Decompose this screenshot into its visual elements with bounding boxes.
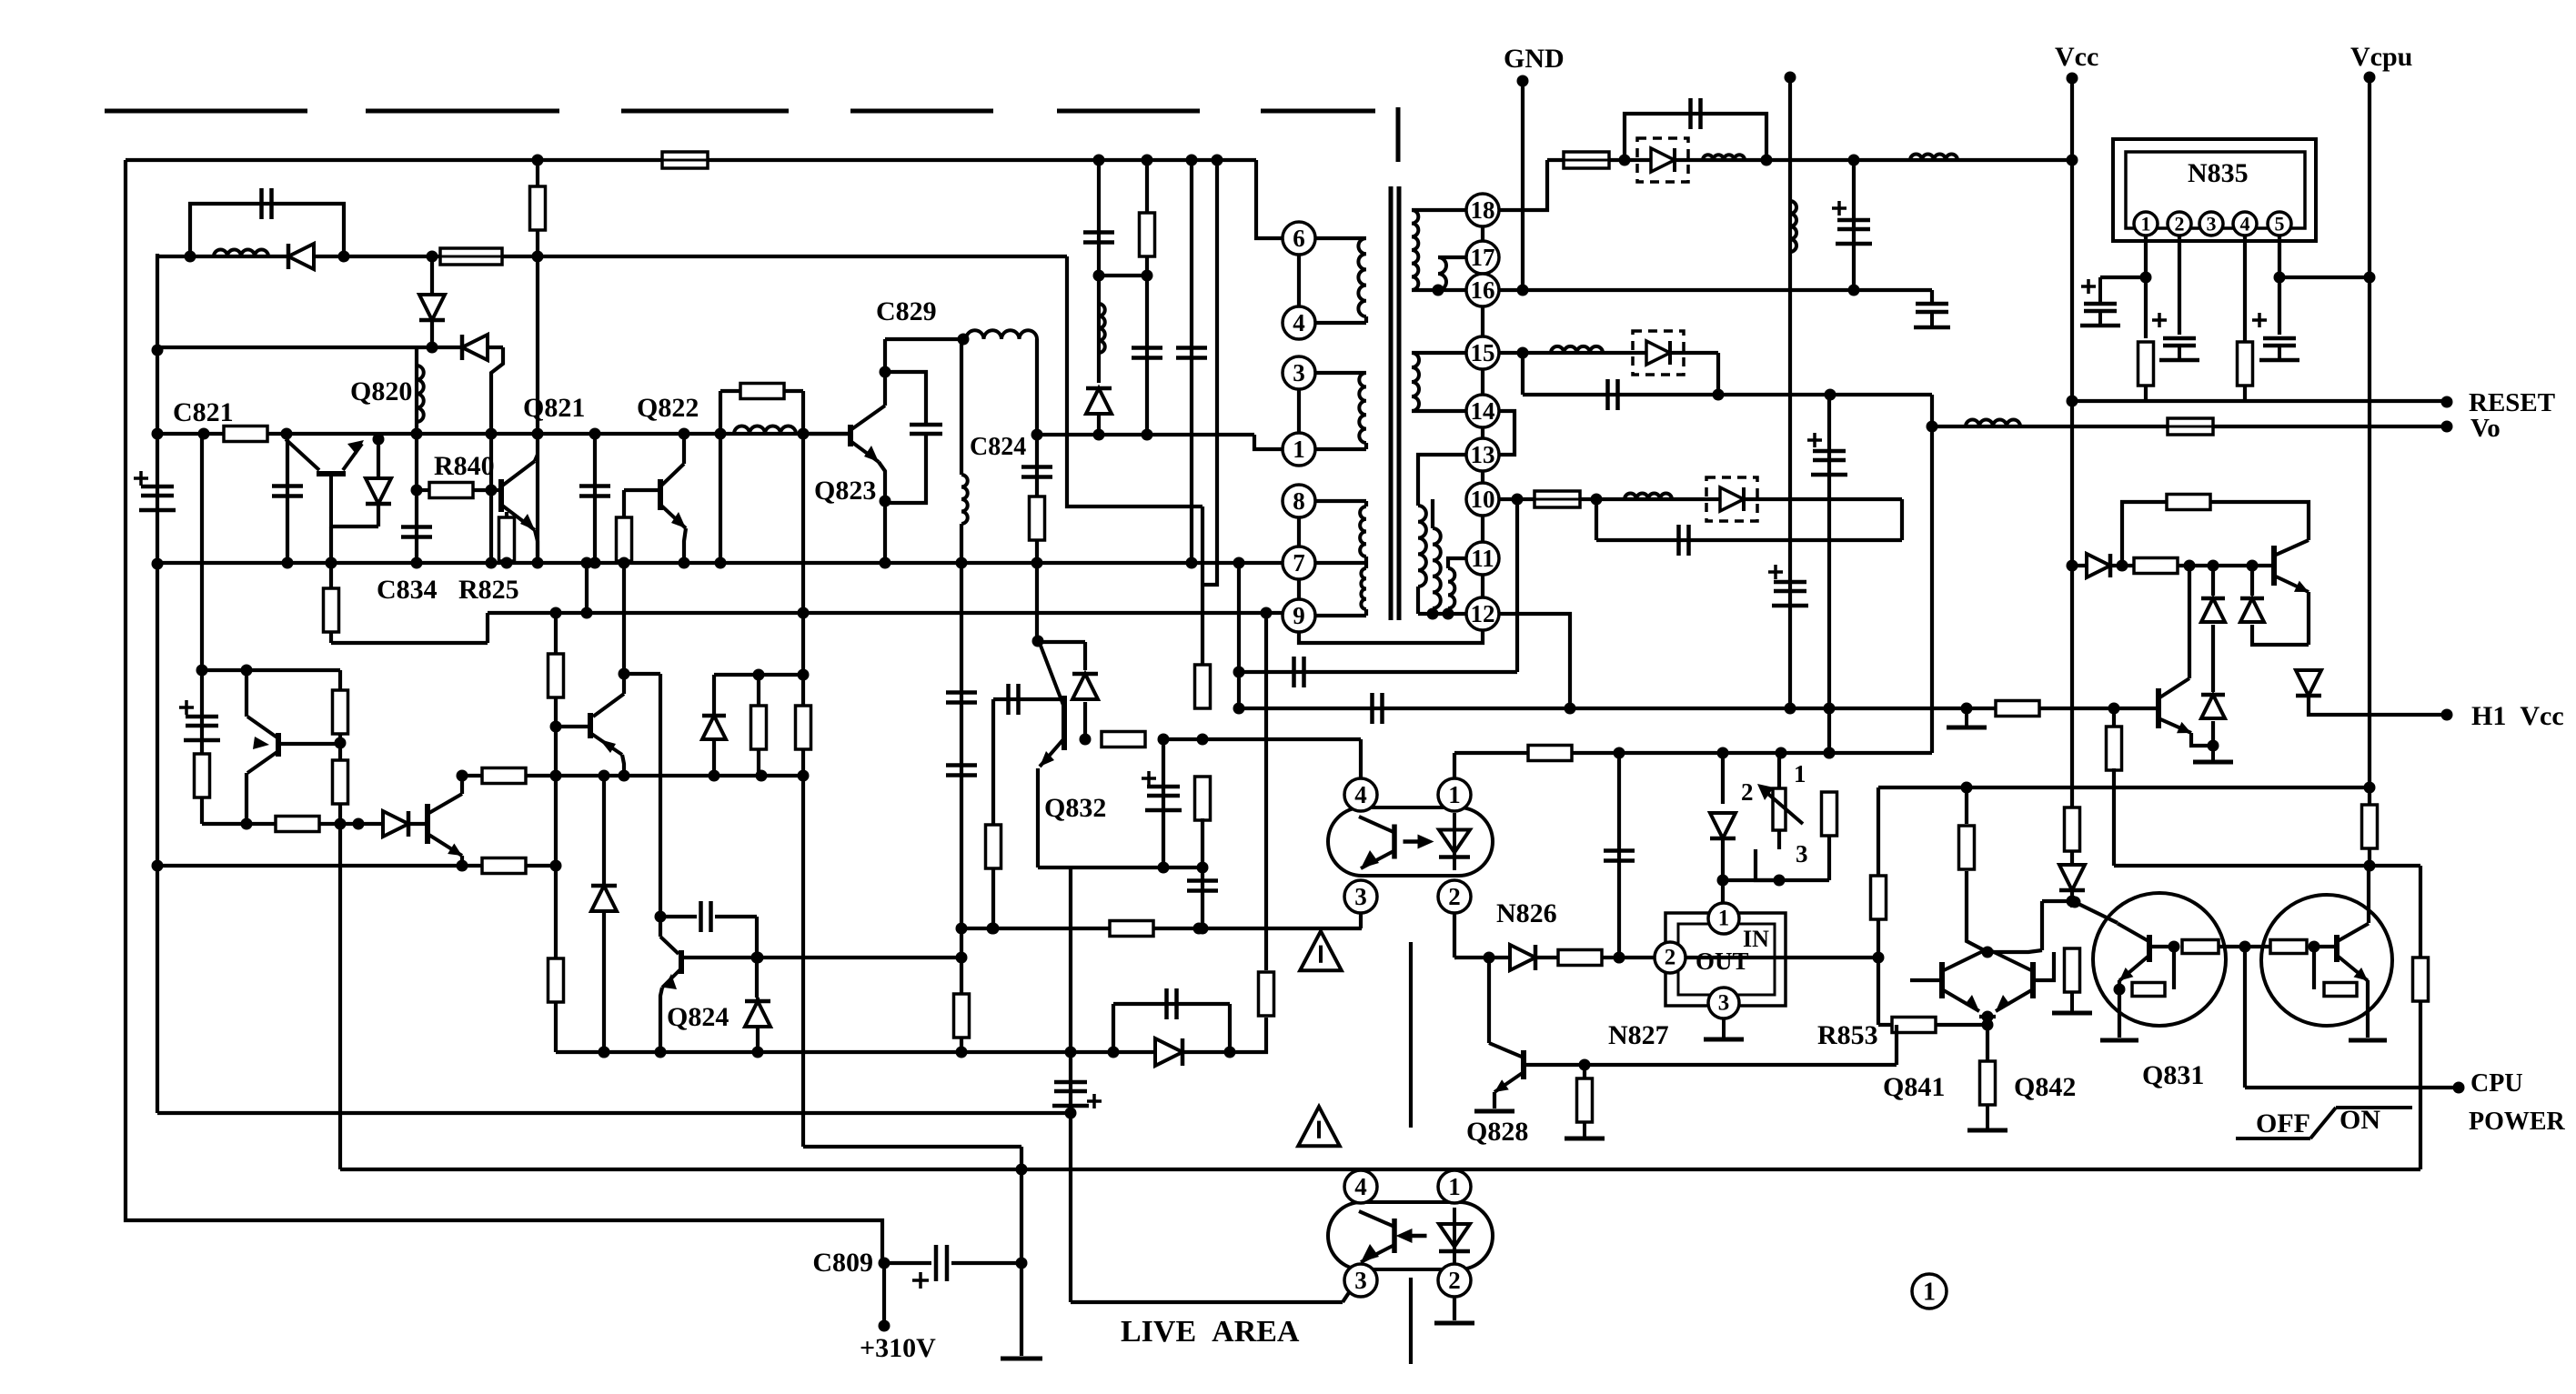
label Q841 [1883,1072,1945,1102]
label Q821 [523,393,585,423]
pin N827-3 [1708,988,1739,1018]
wire x2245 from Vcc branch [2040,901,2044,950]
wire link x1208-x1261 [1099,274,1147,277]
junction row866 x2605 [2364,782,2376,794]
svg-text:ON: ON [2340,1105,2380,1135]
pin 10 [1466,483,1499,516]
capacitor snubber loop [262,188,272,219]
diode Vcc chain [2059,865,2085,890]
junction row779 x2011 [1824,703,1836,715]
resistor x2162 [1959,826,1975,869]
wire vertical x726 [659,674,662,937]
junction x1310 row619 [1186,557,1198,569]
capacitor loop row1157 [1167,988,1177,1019]
ground right circle [2349,1038,2387,1043]
capacitor electrolytic x1177 [1052,1082,1102,1108]
junction x540 y539 [486,485,498,496]
wire winding13 bottom [1416,587,1420,614]
junction row853 x883 [798,770,810,782]
junction x1726 row779 [1565,703,1576,715]
wire cluster top right [1987,950,2042,952]
wire pin15 corner [1716,353,1720,395]
wire x1668 wrap [1515,499,1519,672]
junction row853 x785 [709,770,720,782]
wire vertical x645 [585,563,589,613]
wire bypass cap loop row176 [1625,114,1766,160]
capacitor x1057 a [946,693,977,703]
junction C809 node [879,1258,891,1269]
pin 13 [1466,438,1499,471]
resistor row962 [482,858,526,874]
svg-text:C809: C809 [812,1248,873,1278]
junction row477 x883 [798,428,810,440]
winding 15-14 [1412,353,1419,411]
wire vertical x883 [801,434,805,1147]
transistor Q824 [660,937,681,989]
resistor x364 [324,588,339,632]
wire x2065 lower [1877,958,1880,1025]
svg-text:GND: GND [1504,44,1565,74]
junction x1674 row388 [1517,347,1529,359]
wire Vcpu vertical [2368,77,2371,806]
label Q828 [1466,1117,1528,1147]
wire x1780 [1617,753,1621,958]
svg-text:Q820: Q820 [350,376,412,406]
junction x1057 row619 [956,557,968,569]
svg-text:2: 2 [2175,213,2185,236]
wire bracket 9-12 [1299,630,1483,643]
junction row906 x394 [353,818,365,830]
svg-text:3: 3 [2207,213,2217,236]
wire x2661 [2419,866,2422,1169]
junction x1177 row1224 [1065,1108,1077,1119]
wire left emitter to gnd [2118,989,2121,1038]
transistor circle Q831 left [2093,893,2226,1026]
wire R853 row [1878,1023,1987,1027]
svg-text:Q831: Q831 [2142,1060,2204,1090]
wire pin1 right [1315,447,1366,451]
wire x1177 long [1069,867,1072,1302]
junction x664 row853 [599,770,610,782]
wire x2162 stem2 [1965,871,1968,928]
junction x316 row619 [282,557,294,569]
wire row 1053 [1454,956,1655,959]
svg-text:1: 1 [1448,781,1461,808]
svg-text:Q822: Q822 [637,393,699,423]
wire cluster top link [1967,928,1987,952]
transistor T3 left-pair [247,717,278,773]
junction cluster collectors [1982,947,1994,958]
resistor H1 row [1996,701,2039,717]
resistor x2661 [2413,958,2429,1001]
resistor row1021 [1110,921,1153,937]
label Q823 [814,476,876,506]
junction on top row x1310 [1186,155,1198,166]
svg-text:Q823: Q823 [814,476,876,506]
pin 8 [1283,485,1315,517]
wire pin14-13 [1481,427,1484,438]
junction x458 row619 [411,557,423,569]
label trimmer 1 [1794,760,1806,787]
svg-text:+310V: +310V [860,1333,936,1363]
junction left emitter [2114,984,2126,996]
winding 17-16 [1438,257,1446,290]
wire dashed live-area boundary seg1 [105,109,307,114]
wire cluster emitters [1979,1015,1996,1018]
wire row 1053 right [1685,956,1878,959]
pin N835-4 [2233,212,2257,236]
junction x591 row619 [532,557,544,569]
terminal Vo [2441,421,2453,433]
wire bypass loop top [720,389,803,393]
junction x173 y620 [152,558,164,570]
wire x271 upper [245,670,248,717]
svg-text:CPU: CPU [2470,1069,2523,1098]
wire x834 [757,675,760,776]
terminal Vcpu [2364,72,2376,84]
junction snubber row x591 [532,251,544,263]
junction row739 x1362 [1233,667,1245,678]
pin opto1-3 [1344,880,1377,913]
junction x645 row619 [581,557,593,569]
junction on top row x591 [532,155,544,166]
wire loop right [1228,1004,1232,1052]
junction x364b row619 [326,557,337,569]
resistor row1053 [1558,950,1602,966]
wire N835 pin4 stem [2243,236,2247,342]
wire zener stub x416 bottom [377,506,380,527]
wire winding7 stub [1364,557,1368,568]
resistor x2011b [1822,792,1837,836]
svg-text:R840: R840 [434,451,495,481]
resistor R840 [429,483,473,498]
svg-text:18: 18 [1471,196,1495,224]
junction x1362 row779 [1233,703,1245,715]
svg-text:16: 16 [1471,276,1495,304]
wire zener stack x2433 a [2211,566,2215,596]
wire H1 terminal [2309,696,2447,715]
wire T2 emitter [460,856,464,866]
junction row1157 x1224 [1108,1047,1120,1058]
wire pin14 right bracket [1499,411,1514,455]
wire N835 pin2 stem [2178,236,2181,335]
resistor row622 [2134,558,2178,574]
winding 6-4 [1358,238,1366,316]
wire zener x833 [756,998,760,1052]
junction C829 left [958,334,970,346]
inductor x1208 [1099,304,1105,353]
wire pin11 tap [1448,558,1466,568]
wire winding8 stub [1364,501,1368,506]
pin N835-2 [2168,212,2191,236]
wire pin8 right [1315,499,1366,503]
pin 12 [1466,597,1499,630]
terminal CPU POWER [2453,1082,2465,1094]
wire pin18 to fuse row [1499,160,1547,210]
wire pin7-9 [1297,579,1301,599]
transistor Q828 [1489,1043,1524,1092]
warning triangle upper [1300,931,1342,970]
wire row 962 [157,864,556,867]
capacitor x1322 [1187,881,1218,891]
junction cluster emitter [1982,1011,1994,1023]
wire right circle collector [2367,866,2370,923]
wire C829 top [885,337,966,341]
wire row 319 [1499,288,1932,292]
winding 8-7 [1360,506,1366,557]
resistor x2065 [1871,876,1887,919]
rectifier diode dashed pin10 [1706,477,1757,521]
wire winding joint [1364,316,1368,323]
wire cluster left base [1910,978,1942,982]
junction row828 x1958 [1776,747,1787,759]
wire winding9 stub [1364,609,1368,616]
svg-text:C829: C829 [876,296,937,326]
svg-text:H1 Vcc: H1 Vcc [2471,701,2564,731]
wire row 1224 [157,1111,1071,1115]
ground opto2 pin2 [1434,1321,1474,1326]
wire row675 to pin12 [1418,612,1466,616]
transistor Q832 [1040,646,1064,767]
wire Q832 collector link [1038,640,1085,644]
svg-text:C834: C834 [377,575,438,605]
junction x1362 row619 [1233,557,1245,569]
wire vertical x1057 lower [960,524,963,1052]
diode row906 [383,811,408,837]
junction x1140 row619 [1031,557,1043,569]
junction row675 x1592 [1443,608,1454,620]
wire x1392 upper [1264,614,1268,970]
capacitor electrolytic x1968 [1768,565,1808,606]
resistor x1092 [986,825,1001,868]
junction x222 row737 [196,665,208,677]
wire dashed live-area boundary seg5 [1057,109,1200,114]
wire Q828 base to cluster [1895,1025,1898,1065]
svg-text:1: 1 [1718,907,1730,931]
winding 10-12 [1433,528,1441,608]
pin 14 [1466,395,1499,427]
junction row828 x1780 [1614,747,1625,759]
wire snubber cap loop [190,204,344,256]
inductor x1968 [1790,201,1796,252]
pin N835-3 [2199,212,2223,236]
svg-text:5: 5 [2275,213,2285,236]
pin 11 [1466,542,1499,575]
ground Q828 [1474,1109,1514,1114]
wire N835 pin1 stem [2144,236,2148,338]
label R825 [458,575,519,605]
resistor feedback top [2167,495,2210,510]
svg-text:3: 3 [1354,883,1367,910]
svg-text:6: 6 [1293,225,1305,252]
junction row1053 x1637 [1484,952,1495,964]
wire row 954 [1038,866,1202,869]
label trimmer 2 [1741,778,1754,806]
wire pin1 to reset row [2144,386,2148,401]
junction Q832 emitter [1080,734,1092,746]
capacitor x1310 [1176,348,1207,358]
wire pin17 left [1438,256,1466,259]
capacitor series H1 row [1373,693,1383,724]
wire pin12 right [1499,614,1570,708]
wire diode stub x1193 [1083,642,1087,670]
resistor right eb [2324,983,2357,997]
resistor x834 [751,706,767,749]
diode x475 [419,295,445,320]
junction x1322 y954 [1197,862,1209,874]
pin opto2-1 [1438,1170,1471,1203]
wire x611 to row1157 [554,1001,558,1052]
junction x508 row962 [457,860,468,872]
junction row779 x2162 [1961,703,1973,715]
junction x664 row1157 [599,1047,610,1058]
wire bypass loop row477 [719,389,722,393]
svg-text:OFF: OFF [2256,1108,2310,1138]
svg-text:1: 1 [1293,436,1305,463]
wire T3 base link [280,742,340,746]
svg-text:3: 3 [1293,359,1305,386]
svg-text:POWER: POWER [2469,1108,2566,1136]
junction row619 x557 [501,557,513,569]
junction x2603 row952 [2364,860,2376,872]
junction row1157 x833 [752,1047,764,1058]
pin 16 [1466,274,1499,306]
svg-text:3: 3 [1718,991,1730,1016]
wire pin5 to Vcpu [2279,276,2370,279]
junction row1171 x1742 [1579,1059,1591,1071]
label +310V [860,1333,936,1363]
wire pin13 left wrap [1418,455,1466,506]
junction x686 row853 [619,770,630,782]
wire row 906 [202,822,428,826]
ground cluster [1967,1105,2007,1130]
junction row1157 x726 [655,1047,667,1058]
pin N835-5 [2268,212,2291,236]
wire Q832 base row [993,697,1064,701]
wire Q828 collector [1487,958,1491,1043]
capacitor C820 electrolytic [134,471,176,510]
page marker 1 [1912,1274,1947,1309]
wire x1092 [991,699,995,928]
fuse on top row [662,152,708,168]
resistor Q832 emitter [1102,732,1145,747]
junction x1057 row1157 [956,1047,968,1058]
wire pin10 corner [1900,499,1904,540]
capacitor C809 [936,1245,947,1281]
svg-text:Vcpu: Vcpu [2350,42,2412,72]
transistor in left circle [2118,924,2149,981]
wire GND vertical [1521,81,1524,290]
pin N827-2 [1655,942,1685,973]
wire CPU POWER row [2245,1086,2459,1089]
wire Q821 emitter [535,530,538,563]
pin opto2-4 [1344,1170,1377,1203]
junction pin5 y305 [2274,272,2286,284]
label N835 [2188,158,2249,188]
wire right base drop [2312,947,2316,989]
wire vertical x591 [536,160,539,563]
transistor circle Q831 right [2261,895,2392,1026]
junction x2433 y820 [2208,740,2219,752]
wire vertical x1310 [1190,160,1193,563]
wire R840 right [473,488,501,492]
svg-text:11: 11 [1471,545,1494,572]
junction row478 x1208 [1093,429,1105,441]
label Q820 [350,376,412,406]
capacitor electrolytic N835 pin2 [2152,313,2199,360]
winding 13-12 [1418,506,1426,587]
junction row828 x2011 [1824,747,1836,759]
resistor x1261 [1140,213,1155,256]
wire opto1 pin1 stem [1453,753,1456,779]
wire row 952 [2114,864,2420,867]
wire row674 step [486,613,489,643]
wire opto1 pin4 stem [1359,739,1363,779]
wire pin4 right [1315,321,1366,325]
svg-text:Q841: Q841 [1883,1072,1945,1102]
wire cluster emitter stem [1986,1017,1989,1061]
junction row675 x1575 [1427,608,1439,620]
resistor x686 [617,517,632,561]
transistor in right circle [2337,924,2369,981]
svg-text:Q842: Q842 [2014,1072,2076,1102]
wire x2476 to emitter [2252,625,2309,645]
svg-text:Vo: Vo [2470,414,2501,443]
wire left border [126,160,882,1263]
wire x2011 to row968 [1827,835,1831,880]
wire left base drop [2172,947,2176,989]
wire row 739 [1239,670,1517,674]
junction x1968 top [1785,72,1796,84]
svg-text:Q832: Q832 [1044,793,1106,823]
wire Vo row [1932,425,2447,428]
junction row954 x1279 [1158,862,1170,874]
junction x508 row853 [457,770,468,782]
wire row 968 [1723,878,1829,882]
junction row779 x2324 [2108,703,2120,715]
IC N827 box [1665,913,1786,1006]
wire +310V stub [882,1263,886,1326]
svg-text:1: 1 [1923,1279,1936,1307]
optocoupler bottom body [1328,1202,1493,1269]
label R853 [1817,1020,1878,1050]
junction Vcpu y305 [2364,272,2376,284]
capacitor electrolytic x1279 [1142,771,1182,810]
junction row853 x837 [756,770,768,782]
wire x1322 lower [1201,818,1204,928]
wire x1755 link [1595,499,1598,540]
wire pin13-10 [1481,471,1484,483]
wire to cpu node [2219,945,2271,948]
wire row 674 pin9 row [488,611,1283,615]
label ON [2340,1105,2380,1135]
svg-text:3: 3 [1796,840,1808,867]
wire Q820 collector down [329,527,333,563]
junction x173 y952 [152,860,164,872]
capacitor beside Q823 [910,425,942,434]
wire pin3-1 [1297,389,1301,433]
wire C809 left [884,1261,931,1265]
svg-text:9: 9 [1293,602,1305,629]
wire row1157 corner up [1264,1018,1266,1052]
junction x973 y551 [880,496,891,507]
wire vertical x173 [156,254,159,1113]
wire right emitter to gnd [2366,989,2370,1038]
diode row622 [2087,554,2110,577]
svg-text:2: 2 [1665,946,1676,970]
pin 4 [1283,306,1315,339]
junction x540 row477 [486,428,498,440]
